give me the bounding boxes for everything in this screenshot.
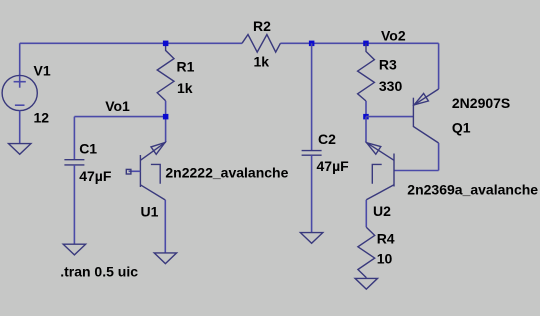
wire Q1 collector	[438, 143, 440, 171]
wire V1 top lead	[19, 43, 21, 76]
ground C1	[63, 244, 85, 255]
svg-text:U2: U2	[373, 203, 391, 219]
wire R3 bottom lead	[365, 101, 367, 117]
svg-text:Vo1: Vo1	[105, 98, 130, 114]
pin square U1 base	[126, 169, 131, 174]
resistor R2	[242, 35, 280, 53]
voltage source V1	[2, 75, 37, 110]
wire U2 collector to R4	[365, 200, 367, 227]
svg-text:Vo2: Vo2	[381, 27, 406, 43]
svg-text:10: 10	[377, 250, 393, 266]
svg-text:1k: 1k	[177, 80, 193, 96]
svg-text:12: 12	[34, 109, 50, 125]
wire top rail right segment	[280, 42, 438, 44]
wire R4 bottom lead	[365, 277, 367, 280]
wire C1 top lead	[73, 117, 75, 160]
wire C2 bottom lead	[311, 155, 313, 232]
wire Q1 emitter top lead	[438, 43, 440, 89]
resistor R3	[358, 43, 375, 101]
node junction Vo1	[163, 114, 169, 120]
svg-text:2n2222_avalanche: 2n2222_avalanche	[165, 165, 288, 181]
ground U1	[154, 253, 176, 264]
capacitor C1	[64, 160, 84, 165]
capacitor C2	[302, 151, 322, 156]
transistor U1	[129, 142, 166, 200]
ground R4	[355, 278, 377, 289]
transistor Q1	[413, 89, 438, 143]
wire U1 collector	[164, 200, 166, 253]
svg-text:2n2369a_avalanche: 2n2369a_avalanche	[407, 182, 538, 198]
wire Q1 base	[366, 116, 413, 118]
svg-text:C1: C1	[79, 141, 97, 157]
transistor U2	[366, 142, 394, 200]
wire R1 to Vo1 node	[165, 101, 167, 142]
svg-text:R3: R3	[379, 57, 397, 73]
wire Q1 collector to U2 base	[394, 170, 439, 172]
wire V1 bottom lead	[19, 110, 21, 143]
wire top rail left segment	[20, 42, 242, 44]
ground V1	[9, 144, 31, 155]
wire Vo1 horizontal	[74, 116, 165, 118]
svg-text:R1: R1	[177, 58, 195, 74]
node junction C2 top	[309, 41, 315, 47]
svg-text:R4: R4	[377, 230, 395, 246]
wire U2 emitter lead	[365, 117, 367, 143]
node junction R1 top	[163, 41, 169, 47]
svg-text:330: 330	[379, 78, 403, 94]
ground C2	[300, 233, 322, 244]
node junction R3 bottom	[363, 114, 369, 120]
svg-text:V1: V1	[34, 63, 51, 79]
resistor R1	[157, 43, 174, 101]
svg-text:1k: 1k	[254, 53, 270, 69]
svg-text:R2: R2	[253, 18, 271, 34]
svg-text:47µF: 47µF	[79, 168, 112, 184]
svg-text:Q1: Q1	[452, 119, 471, 135]
node junction R3 top	[363, 41, 369, 47]
wire C1 bottom lead	[73, 165, 75, 244]
svg-text:U1: U1	[141, 204, 159, 220]
wire C2 top lead	[311, 43, 313, 150]
svg-text:2N2907S: 2N2907S	[452, 95, 510, 111]
svg-text:.tran 0.5 uic: .tran 0.5 uic	[60, 263, 138, 279]
resistor R4	[358, 227, 375, 277]
svg-text:47µF: 47µF	[317, 158, 350, 174]
svg-text:C2: C2	[318, 131, 336, 147]
